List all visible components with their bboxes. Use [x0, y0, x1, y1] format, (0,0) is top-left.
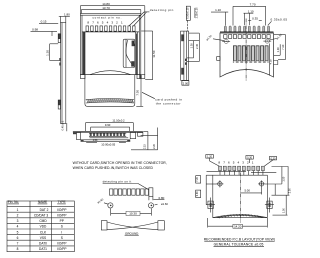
- svg-text:1.30: 1.30: [276, 47, 280, 53]
- svg-text:GROUND: GROUND: [125, 231, 139, 235]
- svg-text:1.10: 1.10: [248, 9, 254, 13]
- svg-text:S: S: [61, 236, 63, 240]
- svg-text:1.30: 1.30: [45, 50, 49, 56]
- svg-text:I: I: [61, 230, 62, 234]
- svg-text:7.70: 7.70: [250, 3, 256, 7]
- svg-text:CLK: CLK: [40, 230, 47, 234]
- svg-text:2.15: 2.15: [144, 144, 147, 149]
- svg-text:I/O/PP: I/O/PP: [57, 208, 66, 212]
- svg-text:3: 3: [17, 219, 19, 223]
- svg-text:contact pin no.: contact pin no.: [92, 16, 122, 20]
- svg-text:VDD: VDD: [40, 225, 47, 229]
- svg-text:detecting pin: detecting pin: [150, 8, 174, 12]
- svg-text:7.20: 7.20: [196, 176, 199, 181]
- svg-text:14.20: 14.20: [234, 224, 242, 228]
- svg-text:1.50: 1.50: [283, 176, 286, 181]
- svg-text:6: 6: [17, 236, 19, 240]
- svg-text:1.50: 1.50: [282, 208, 285, 213]
- svg-text:2.20: 2.20: [153, 143, 156, 148]
- svg-text:1.20: 1.20: [207, 156, 212, 159]
- svg-text:0.30: 0.30: [271, 157, 276, 160]
- svg-text:I/O/PP: I/O/PP: [57, 242, 66, 246]
- svg-text:4.30: 4.30: [268, 59, 272, 65]
- svg-text:1.30: 1.30: [190, 43, 194, 49]
- svg-text:2.00: 2.00: [183, 81, 189, 85]
- svg-text:2.45: 2.45: [195, 43, 199, 49]
- svg-text:87654321: 87654321: [87, 20, 125, 24]
- svg-text:0.15: 0.15: [41, 20, 47, 24]
- svg-text:87654321: 87654321: [218, 161, 256, 165]
- svg-text:10.00±0.05: 10.00±0.05: [101, 142, 115, 146]
- svg-text:I/O/PP: I/O/PP: [57, 247, 66, 251]
- svg-text:1.50: 1.50: [93, 139, 98, 142]
- svg-text:9.90: 9.90: [105, 123, 111, 127]
- svg-text:11.10±0.2: 11.10±0.2: [112, 119, 125, 123]
- svg-text:the connector: the connector: [156, 102, 181, 106]
- svg-text:5: 5: [17, 230, 19, 234]
- svg-text:5.00: 5.00: [244, 189, 250, 193]
- svg-text:ø1.60: ø1.60: [161, 202, 168, 206]
- svg-text:7.50: 7.50: [135, 90, 139, 96]
- svg-text:4: 4: [17, 225, 19, 229]
- svg-text:WITHOUT CARD,SWITCH OPENED IN: WITHOUT CARD,SWITCH OPENED IN THE CONNEC…: [73, 161, 167, 165]
- svg-text:7.30: 7.30: [281, 44, 285, 50]
- svg-text:9.90: 9.90: [196, 191, 199, 196]
- svg-text:10.30: 10.30: [129, 212, 137, 216]
- svg-text:VSS: VSS: [40, 236, 46, 240]
- svg-text:0.50±0.10: 0.50±0.10: [186, 7, 189, 19]
- svg-text:1.80: 1.80: [64, 12, 70, 16]
- svg-text:0.98: 0.98: [32, 28, 38, 32]
- svg-text:RECOMMENDED P.C.B LAYOUT(TOP V: RECOMMENDED P.C.B LAYOUT(TOP VIEW): [204, 238, 275, 242]
- svg-text:13.70: 13.70: [102, 6, 110, 10]
- svg-text:1: 1: [17, 208, 19, 212]
- svg-text:S: S: [61, 225, 63, 229]
- svg-text:WHEN CARD PUSHED-IN,SWITCH WAS: WHEN CARD PUSHED-IN,SWITCH WAS CLOSED: [73, 166, 154, 170]
- svg-text:7: 7: [17, 242, 19, 246]
- svg-text:0.30: 0.30: [247, 157, 252, 160]
- svg-text:0.40±0.1: 0.40±0.1: [62, 120, 65, 130]
- svg-text:0.80: 0.80: [158, 196, 164, 200]
- svg-text:detecting pin on it: detecting pin on it: [103, 180, 132, 184]
- svg-text:0.35: 0.35: [252, 16, 258, 20]
- svg-text:2.00: 2.00: [288, 188, 291, 193]
- svg-text:DAT0: DAT0: [39, 242, 47, 246]
- svg-text:GENERAL TOLERANCE ±0.05: GENERAL TOLERANCE ±0.05: [214, 242, 264, 246]
- svg-text:I/O/PP: I/O/PP: [57, 214, 66, 218]
- svg-text:0.35±0.05: 0.35±0.05: [271, 18, 288, 22]
- svg-text:DAT 2: DAT 2: [40, 208, 49, 212]
- svg-text:2: 2: [17, 214, 19, 218]
- svg-text:1.10: 1.10: [215, 8, 221, 12]
- svg-text:8: 8: [17, 247, 19, 251]
- svg-text:PP: PP: [60, 219, 64, 223]
- svg-text:CD/DAT 3: CD/DAT 3: [34, 214, 48, 218]
- svg-text:1.15±0.10: 1.15±0.10: [195, 7, 198, 19]
- svg-text:CMD: CMD: [39, 219, 47, 223]
- svg-text:DAT1: DAT1: [39, 247, 47, 251]
